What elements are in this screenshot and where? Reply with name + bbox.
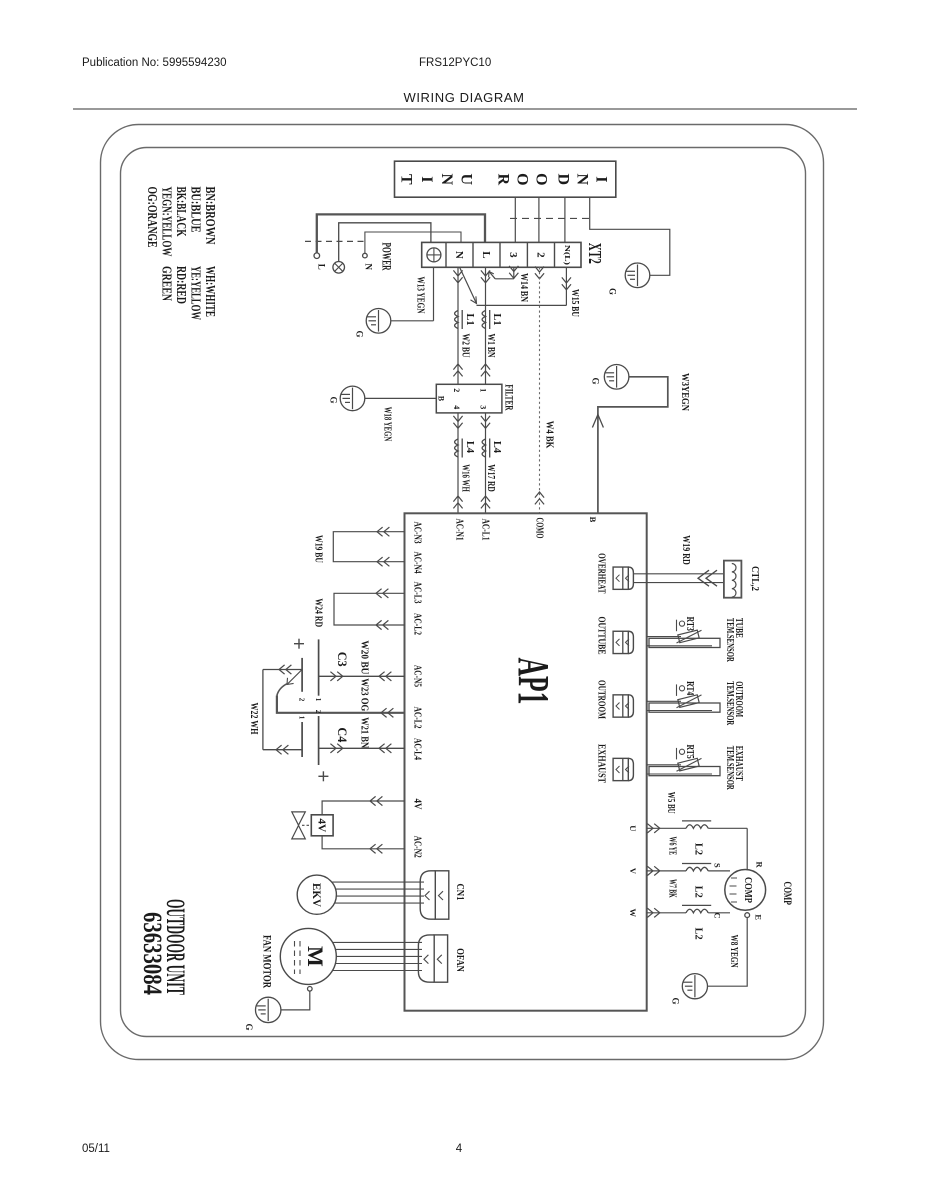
wire W8 (comp E to ground) <box>707 918 747 987</box>
svg-text:2: 2 <box>314 710 322 714</box>
label OVERHEAT <box>596 553 607 594</box>
wire W14 (terminal 3 to L) <box>489 267 514 279</box>
arrows W19 lower <box>377 557 389 566</box>
title rule <box>73 108 857 110</box>
wire W23 (AP1 AC-L2 to C3 terminal 2, thick) <box>277 683 405 713</box>
arrows W21 into AP1 <box>379 744 391 753</box>
svg-text:M: M <box>303 946 328 967</box>
arrow XT2 N(L) out <box>562 277 571 289</box>
label COMP (outside) <box>781 882 795 905</box>
label FAN MOTOR <box>260 935 274 988</box>
svg-text:G: G <box>328 396 338 403</box>
pin label W <box>628 909 638 918</box>
arrows W24 lower <box>376 620 388 629</box>
svg-text:U: U <box>458 174 475 186</box>
svg-text:FRS12PYC10: FRS12PYC10 <box>419 57 491 69</box>
label TEM.SENSOR (outroom) <box>724 681 735 726</box>
wire indoor-unit to XT2 terminal 3 <box>514 197 516 242</box>
svg-text:W22 WH: W22 WH <box>248 703 259 735</box>
svg-text:W8 YEGN: W8 YEGN <box>728 935 739 969</box>
svg-text:V: V <box>628 868 638 875</box>
pin label V <box>628 868 638 875</box>
svg-text:EXHAUST: EXHAUST <box>596 744 607 783</box>
svg-text:E: E <box>754 914 764 920</box>
svg-text:63633084: 63633084 <box>138 912 167 995</box>
pin label AC-L1 <box>480 519 491 541</box>
arrows W21 outbound <box>330 744 342 753</box>
arrows W24 upper <box>376 589 388 598</box>
label W2 BU <box>460 334 471 358</box>
svg-text:TEM.SENSOR: TEM.SENSOR <box>724 618 735 663</box>
arrows W19 RD <box>698 570 717 586</box>
footer date 05/11 <box>82 1143 110 1155</box>
svg-text:FAN MOTOR: FAN MOTOR <box>260 935 274 988</box>
svg-text:YE:YELLOW: YE:YELLOW <box>188 266 203 320</box>
svg-text:B: B <box>588 517 598 523</box>
label RT3 <box>684 617 695 631</box>
wire 4V coil to AP1 AC-N2 <box>322 836 404 849</box>
svg-text:W24 RD: W24 RD <box>313 598 324 627</box>
wires OVERHEAT to CTL2 <box>633 574 724 583</box>
svg-text:W18 YEGN: W18 YEGN <box>382 407 393 442</box>
arrows XT2 2 out <box>535 266 544 278</box>
arrows XT2 3 out <box>509 266 518 278</box>
svg-text:R: R <box>495 174 512 186</box>
label W22 WH <box>248 703 259 735</box>
label 2 (C4 terminal) <box>314 710 322 714</box>
svg-text:B: B <box>437 396 446 402</box>
svg-text:BN:BROWN: BN:BROWN <box>202 187 217 245</box>
pin label AC-N5 (left edge) <box>412 665 423 687</box>
svg-text:N: N <box>364 264 374 271</box>
svg-text:W5 BU: W5 BU <box>665 792 676 814</box>
svg-text:WH:WHITE: WH:WHITE <box>202 266 217 317</box>
label L2 (W) <box>692 928 703 940</box>
label W15 BU <box>569 289 580 317</box>
svg-text:2: 2 <box>452 388 461 392</box>
wire fan motor to ground <box>281 991 310 1010</box>
inductor L2 (U) <box>682 821 711 828</box>
label G (filter ground) <box>328 396 338 403</box>
label CTL,2 <box>749 566 760 591</box>
svg-text:L: L <box>480 251 492 258</box>
svg-text:G: G <box>590 377 600 384</box>
svg-text:W15 BU: W15 BU <box>569 289 580 317</box>
wire filter pin3 to AP1 AC-L1 <box>485 413 487 513</box>
svg-text:AC-L3: AC-L3 <box>412 582 423 604</box>
inner border frame <box>121 148 806 1037</box>
capacitor C3 plate positive <box>318 639 320 695</box>
label G (W3 ground) <box>590 377 600 384</box>
filter module FILTER <box>436 384 502 413</box>
label W21 BN <box>358 717 369 749</box>
connector EXHAUST <box>613 758 633 780</box>
wire W18 (filter B to ground) <box>365 397 437 399</box>
svg-text:OFAN: OFAN <box>454 948 465 972</box>
svg-text:S: S <box>713 863 723 868</box>
label TUBE <box>733 618 744 638</box>
svg-text:L4: L4 <box>491 441 502 453</box>
label POWER <box>379 243 394 271</box>
svg-text:W6 YE: W6 YE <box>667 837 678 856</box>
svg-text:3: 3 <box>507 252 519 258</box>
svg-text:AC-L1: AC-L1 <box>480 519 491 541</box>
svg-text:L1: L1 <box>464 314 475 326</box>
svg-text:W13 YEGN: W13 YEGN <box>414 277 425 315</box>
svg-text:4: 4 <box>452 405 461 409</box>
terminal strip XT2 <box>422 242 581 267</box>
control board AP1 outline <box>405 513 647 1010</box>
label W3YEGN <box>679 373 690 412</box>
svg-text:Publication No: 5995594230: Publication No: 5995594230 <box>82 57 227 69</box>
arrows XT2 L out <box>481 270 490 282</box>
connector OFAN <box>418 935 447 982</box>
svg-text:COMO: COMO <box>534 518 545 539</box>
svg-text:EKV: EKV <box>310 883 324 907</box>
svg-text:G: G <box>607 288 617 295</box>
screw terminal (power ground) <box>333 262 345 274</box>
label CN1 <box>454 884 465 901</box>
svg-text:POWER: POWER <box>379 243 394 271</box>
pin label 4V (left edge) <box>412 799 423 811</box>
label W18 YEGN <box>382 407 393 442</box>
svg-text:W2 BU: W2 BU <box>460 334 471 358</box>
header publication number <box>82 57 227 69</box>
arrows W19 upper <box>377 527 389 536</box>
svg-text:4V: 4V <box>316 818 328 832</box>
sensor RT4 (outroom temp) <box>647 684 720 712</box>
svg-text:U: U <box>628 825 638 831</box>
label C4 <box>335 727 350 742</box>
label L (power terminal) <box>316 264 326 270</box>
label EXHAUST <box>596 744 607 783</box>
label G (comp ground) <box>670 997 680 1004</box>
protector CTL2 box <box>724 561 742 598</box>
svg-text:W14 BN: W14 BN <box>518 273 529 303</box>
svg-text:AC-L4: AC-L4 <box>412 738 423 760</box>
solenoid coil 4V <box>311 815 333 836</box>
svg-text:AC-N3: AC-N3 <box>412 522 423 544</box>
node fan motor ground tap <box>308 987 313 992</box>
valve symbol (4-way valve) <box>292 812 306 839</box>
label OFAN <box>454 948 465 972</box>
label W19 RD <box>680 535 691 565</box>
link valve to coil (dashed) <box>302 824 311 826</box>
wire W20 (C3 plate1 to AP1 AC-N5) <box>319 675 405 677</box>
svg-text:AC-L2: AC-L2 <box>412 613 423 635</box>
label L1 (L line) <box>491 314 502 326</box>
wire W15 (terminal N to N(L)) <box>460 267 567 305</box>
svg-text:1: 1 <box>314 698 322 702</box>
svg-text:COMP: COMP <box>781 882 795 905</box>
wires EKV to CN1 (4) <box>332 882 424 903</box>
svg-text:3: 3 <box>478 405 487 409</box>
svg-text:05/11: 05/11 <box>82 1143 110 1155</box>
wire indoor-unit to XT2 terminal 2 <box>538 197 540 242</box>
boundary dashed line (indoor) <box>510 217 592 219</box>
svg-text:BK:BLACK: BK:BLACK <box>173 187 188 237</box>
arrows into AP1 COMO <box>535 492 544 504</box>
label W13 YEGN <box>414 277 425 315</box>
inductor L2 (W) <box>682 905 711 912</box>
label FILTER <box>502 384 516 410</box>
svg-text:W17 RD: W17 RD <box>485 464 496 492</box>
arrows on C3 plate2 wire <box>279 665 291 674</box>
svg-text:W3YEGN: W3YEGN <box>679 373 690 412</box>
label 2 (C3 terminal) <box>298 698 306 702</box>
outer border frame <box>101 125 824 1060</box>
label C3 <box>335 652 350 667</box>
svg-text:G: G <box>244 1023 254 1030</box>
svg-text:COMP: COMP <box>742 877 754 903</box>
label EKV <box>310 883 324 907</box>
polarity + (C4) <box>318 771 328 781</box>
label 4V (coil) <box>316 818 328 832</box>
header model number <box>419 57 491 69</box>
svg-text:W21 BN: W21 BN <box>358 717 369 749</box>
pin label AC-L2 (left edge) <box>412 707 423 729</box>
arrow on B wire <box>592 415 603 428</box>
arrows out of filter pin3 <box>481 416 490 428</box>
svg-text:1: 1 <box>478 388 487 392</box>
svg-text:XT2: XT2 <box>585 243 605 264</box>
svg-text:W7 BK: W7 BK <box>667 879 678 898</box>
label OUTROOM (sensor) <box>733 681 744 717</box>
compressor winding dashes <box>730 878 738 902</box>
connector OVERHEAT <box>613 567 633 589</box>
arrows W20 into AP1 <box>379 672 391 681</box>
svg-text:OVERHEAT: OVERHEAT <box>596 553 607 594</box>
label L4 (N line) <box>464 441 475 453</box>
label R (comp terminal) <box>755 862 765 869</box>
arrows XT2 N out <box>453 270 462 282</box>
label RT4 <box>684 681 695 695</box>
svg-text:T: T <box>398 174 415 185</box>
wire V (AP1 to comp S) <box>647 870 730 872</box>
svg-text:RT3: RT3 <box>684 617 695 631</box>
connector CN1 <box>420 871 449 919</box>
wire W24 (AC-L3 to AC-L2 loop) <box>334 593 405 625</box>
svg-text:I: I <box>418 176 435 182</box>
svg-text:O: O <box>513 173 530 185</box>
svg-text:AP1: AP1 <box>509 658 558 705</box>
svg-text:N: N <box>574 174 591 186</box>
svg-text:RD:RED: RD:RED <box>173 266 188 304</box>
capacitor C3 plate negative <box>301 658 303 692</box>
terminal N (power) <box>363 253 368 258</box>
wire W13 (XT2 screw to ground) <box>391 267 433 321</box>
wire W3 (AP1 B to ground) <box>598 377 668 514</box>
label G (fan motor ground) <box>244 1023 254 1030</box>
wire W19 (AC-N3 to AC-N4 loop) <box>333 532 404 562</box>
connector OUTTUBE <box>613 631 633 653</box>
arrow into C3 terminal 2 <box>287 670 302 685</box>
arrows into AP1 4V <box>370 796 382 805</box>
label L4 (L line) <box>491 441 502 453</box>
wire ground screw to XT2 screw <box>339 223 431 262</box>
arrows W20 outbound <box>330 672 342 681</box>
svg-text:N: N <box>453 251 465 259</box>
pin label COMO <box>534 518 545 539</box>
svg-text:WIRING DIAGRAM: WIRING DIAGRAM <box>403 90 524 105</box>
inductor L4 (N line) <box>455 439 463 458</box>
svg-text:OUTTUBE: OUTTUBE <box>596 617 607 655</box>
svg-text:L: L <box>316 264 326 270</box>
svg-text:YEGN:YELLOW: YEGN:YELLOW <box>159 187 174 257</box>
inductor L1 (N line) <box>455 310 463 329</box>
wires fan motor to OFAN (5) <box>332 942 422 970</box>
svg-text:L2: L2 <box>692 886 703 898</box>
svg-text:O: O <box>532 173 549 185</box>
svg-text:TEM.SENSOR: TEM.SENSOR <box>724 681 735 726</box>
svg-text:W20 BU: W20 BU <box>358 640 369 674</box>
label AP1 <box>509 658 558 705</box>
pin label U <box>628 825 638 831</box>
svg-text:2: 2 <box>298 698 306 702</box>
capacitor C4 plate positive <box>318 716 320 765</box>
svg-text:AC-N1: AC-N1 <box>453 519 464 541</box>
svg-text:C3: C3 <box>335 652 350 667</box>
label COMP (inside) <box>742 877 754 903</box>
svg-text:4: 4 <box>456 1143 463 1155</box>
svg-text:BU:BLUE: BU:BLUE <box>188 187 203 233</box>
polarity + (C3) <box>294 639 304 649</box>
svg-text:OG:ORANGE: OG:ORANGE <box>144 187 159 248</box>
label OUTTUBE <box>596 617 607 655</box>
label W7 BK <box>667 879 678 898</box>
pin label AC-L4 (left edge) <box>412 738 423 760</box>
svg-text:2: 2 <box>534 252 546 258</box>
protector CTL2 bimetal element <box>732 564 736 598</box>
pin label AC-N4 (left edge) <box>412 552 423 574</box>
inductor L1 (L line) <box>482 310 490 329</box>
svg-text:N(L): N(L) <box>563 245 572 266</box>
label G (power ground) <box>354 330 364 337</box>
label 63633084 <box>138 912 167 995</box>
label W19 BU <box>313 535 324 563</box>
label 1 (C4 terminal) <box>298 716 306 720</box>
svg-text:OUTROOM: OUTROOM <box>596 680 607 719</box>
label L2 (V) <box>692 886 703 898</box>
ground symbol G (indoor unit) <box>625 263 650 288</box>
sensor RT3 (tube temp) <box>647 620 720 648</box>
svg-text:G: G <box>354 330 364 337</box>
svg-text:GREEN: GREEN <box>159 266 174 301</box>
svg-text:N: N <box>438 174 455 186</box>
label W23 OG <box>358 678 369 711</box>
svg-text:AC-N2: AC-N2 <box>412 836 423 858</box>
arrows on W22 at C4 <box>276 745 288 754</box>
svg-text:AC-N4: AC-N4 <box>412 552 423 574</box>
footer page 4 <box>456 1143 463 1155</box>
arrows into filter pin1 <box>481 364 490 376</box>
arrows into AP1 AC-N2 <box>370 844 382 853</box>
label W16 WH <box>460 464 471 492</box>
label XT2 <box>585 243 605 264</box>
capacitor C4 plate negative <box>301 722 303 757</box>
svg-text:W19 RD: W19 RD <box>680 535 691 565</box>
label W1 BN <box>485 334 496 359</box>
label N (power terminal) <box>364 264 374 271</box>
wire L power feed (thick) <box>317 214 485 252</box>
svg-text:I: I <box>593 176 610 182</box>
svg-text:RT4: RT4 <box>684 681 695 695</box>
svg-text:W1 BN: W1 BN <box>485 334 496 359</box>
svg-text:L2: L2 <box>692 928 703 940</box>
arrows out of filter pin4 <box>453 416 462 428</box>
svg-text:CN1: CN1 <box>454 884 465 901</box>
arrows V out <box>647 866 659 875</box>
expansion valve EKV <box>297 875 336 914</box>
fan motor M circle <box>280 928 336 984</box>
label L1 (N line) <box>464 314 475 326</box>
svg-text:1: 1 <box>298 716 306 720</box>
svg-text:TEM.SENSOR: TEM.SENSOR <box>724 746 735 791</box>
pin label AC-L3 (left edge) <box>412 582 423 604</box>
ground symbol G (compressor) <box>682 974 707 999</box>
wire L line (XT2 to filter pin1) <box>485 267 487 384</box>
label RT5 <box>684 745 695 759</box>
label 1 (C3 terminal) <box>314 698 322 702</box>
svg-text:W23 OG: W23 OG <box>358 678 369 711</box>
svg-text:CTL,2: CTL,2 <box>749 566 760 591</box>
label W14 BN <box>518 273 529 303</box>
compressor COMP circle <box>725 870 766 911</box>
fan motor winding dashes <box>295 941 301 974</box>
arrows U out <box>647 824 659 833</box>
ground symbol G (W3) <box>604 365 629 390</box>
wire W21 (C4 plate2 to AP1 AC-L4) <box>319 747 405 749</box>
arrows into filter pin2 <box>453 364 462 376</box>
wire filter pin4 to AP1 AC-N1 <box>457 413 459 513</box>
power boundary dashed line <box>305 240 367 242</box>
arrows into AP1 AC-L1 <box>481 496 490 508</box>
svg-text:W16 WH: W16 WH <box>460 464 471 492</box>
label EXHAUST (sensor) <box>733 746 744 781</box>
connector INDOOR UNIT <box>395 161 616 197</box>
legend wire color codes <box>144 187 217 321</box>
label W8 YEGN <box>728 935 739 969</box>
svg-text:4V: 4V <box>412 799 423 811</box>
wire indoor-unit to ground G <box>590 197 670 275</box>
label W6 YE <box>667 837 678 856</box>
label OUTROOM <box>596 680 607 719</box>
wire U (AP1 to comp R) <box>647 828 748 869</box>
connector OUTROOM <box>613 695 633 717</box>
pin label AC-N1 <box>453 519 464 541</box>
wire W (AP1 to comp C) <box>647 912 730 914</box>
wire indoor-unit to XT2 terminal N(L) <box>564 197 566 242</box>
arrows into AP1 AC-N1 <box>453 496 462 508</box>
pin label AC-N2 (left edge) <box>412 836 423 858</box>
svg-text:R: R <box>755 862 765 869</box>
svg-text:C4: C4 <box>335 727 350 742</box>
svg-text:AC-L2: AC-L2 <box>412 707 423 729</box>
label S (comp terminal) <box>713 863 723 868</box>
label W20 BU <box>358 640 369 674</box>
svg-text:D: D <box>554 174 571 186</box>
ground symbol G (filter) <box>340 386 365 411</box>
label E (comp terminal) <box>754 914 764 920</box>
wire W22 (C3 to C4) <box>263 670 302 750</box>
svg-text:AC-N5: AC-N5 <box>412 665 423 687</box>
svg-text:RT5: RT5 <box>684 745 695 759</box>
label L2 (U) <box>692 843 703 855</box>
label W5 BU <box>665 792 676 814</box>
inductor L4 (L line) <box>482 439 490 458</box>
svg-text:L2: L2 <box>692 843 703 855</box>
pin label AC-L2 (left edge) <box>412 613 423 635</box>
